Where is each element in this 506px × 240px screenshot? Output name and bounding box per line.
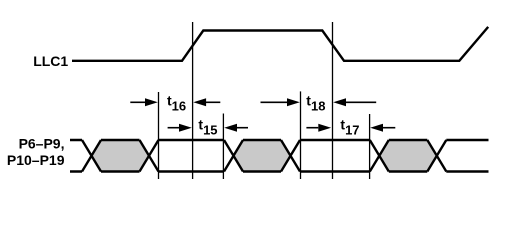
data bus crossover X6 [427, 140, 446, 172]
svg-text:P10–P19: P10–P19 [7, 152, 65, 168]
node reference line at clock falling edge [332, 22, 334, 179]
wire t17 left arrow [306, 124, 331, 132]
wire t17 right arrow [370, 124, 395, 132]
wire t18 right arrow [333, 98, 376, 106]
svg-text:t17: t17 [340, 117, 359, 138]
node reference line data invalid right [369, 114, 371, 179]
node reference line data invalid left [222, 114, 224, 180]
data bus crossover X4 [281, 140, 300, 172]
data bus crossover X1 [82, 140, 101, 172]
node reference line data valid right [300, 91, 302, 179]
svg-text:t16: t16 [167, 93, 186, 114]
wire clock LLC1 waveform [72, 27, 488, 61]
wire t16 right arrow [193, 98, 220, 106]
data bus shaded hexagon 3 [379, 140, 437, 172]
data bus shaded hexagon 1 [92, 140, 150, 172]
wire t15 right arrow [224, 124, 248, 132]
data bus crossover X2 [140, 140, 159, 172]
wire data bus top rail [70, 139, 489, 141]
node reference line data valid left [158, 92, 160, 179]
svg-text:P6–P9,: P6–P9, [19, 136, 65, 152]
node reference line at clock rising edge [192, 22, 194, 179]
svg-text:LLC1: LLC1 [33, 53, 68, 69]
svg-text:t15: t15 [198, 117, 217, 138]
data bus crossover X3 [224, 140, 243, 172]
wire t18 left arrow [261, 98, 300, 106]
svg-text:t18: t18 [306, 93, 325, 114]
wire data bus bottom rail [70, 170, 489, 172]
data bus shaded hexagon 2 [234, 140, 291, 172]
data bus crossover X5 [370, 140, 389, 172]
wire t15 left arrow [168, 124, 192, 132]
wire t16 left arrow [130, 98, 158, 106]
